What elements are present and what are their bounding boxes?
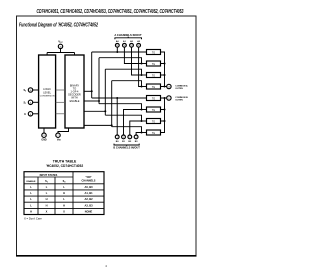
wire S0 bbox=[33, 89, 39, 91]
wire decoder out2 vertical bbox=[98, 58, 100, 104]
page frame bottom edge (darker) bbox=[16, 255, 197, 257]
switch TG7 bbox=[147, 119, 161, 124]
wire row5 channel bbox=[92, 97, 147, 99]
switch TG6 bbox=[147, 107, 161, 112]
svg-text:8: 8 bbox=[43, 135, 44, 137]
wire B0 riser bbox=[116, 98, 118, 135]
svg-text:H: H bbox=[63, 191, 65, 195]
svg-text:ENABLE: ENABLE bbox=[70, 100, 80, 103]
node COMMON B bbox=[167, 96, 171, 100]
wire control TG4 bbox=[112, 81, 142, 87]
wire bus A bbox=[161, 52, 167, 87]
svg-text:H: H bbox=[30, 209, 32, 213]
truth table grid bbox=[24, 172, 104, 215]
node B1 bbox=[122, 135, 126, 139]
wire decoder feed1 bbox=[84, 90, 92, 92]
wire B3 riser bbox=[136, 133, 141, 136]
svg-text:13: 13 bbox=[168, 86, 170, 88]
svg-text:9: 9 bbox=[30, 102, 31, 104]
svg-text:TG: TG bbox=[152, 121, 155, 124]
truth table data text bbox=[30, 185, 93, 214]
wire S1 bbox=[33, 101, 39, 103]
wire decoder out4 vertical bbox=[111, 81, 113, 127]
wire box1 to box2 link2 bbox=[56, 101, 65, 103]
wire A0 drop bbox=[116, 47, 118, 52]
wire row4 channel bbox=[142, 86, 147, 88]
wire E bbox=[33, 113, 39, 115]
svg-text:TRUTH TABLE: TRUTH TABLE bbox=[53, 159, 77, 163]
svg-text:H: H bbox=[46, 203, 48, 207]
wire box1 to box2 link3 bbox=[56, 113, 65, 115]
svg-text:S1: S1 bbox=[23, 101, 26, 104]
wire row3 channel bbox=[142, 74, 147, 76]
svg-text:4: 4 bbox=[136, 137, 137, 139]
switch TG3 bbox=[147, 73, 161, 78]
svg-text:X: X bbox=[46, 209, 48, 213]
wire A3 drop bbox=[139, 47, 142, 86]
wire row7 channel bbox=[142, 120, 147, 122]
svg-text:TG: TG bbox=[152, 75, 155, 78]
node COMMON A bbox=[167, 84, 171, 88]
wire decoder feed3 bbox=[84, 110, 105, 112]
svg-text:5: 5 bbox=[123, 137, 124, 139]
svg-text:OUT/IN: OUT/IN bbox=[175, 88, 183, 90]
node B2 bbox=[128, 135, 132, 139]
wire control TG7 bbox=[105, 115, 141, 121]
svg-text:X: X bbox=[63, 209, 65, 213]
wire box1 to box2 link1 bbox=[56, 89, 65, 91]
switch TG1 bbox=[147, 50, 161, 55]
svg-text:X = Don’t Care: X = Don’t Care bbox=[24, 216, 42, 220]
svg-text:11: 11 bbox=[138, 45, 140, 47]
svg-text:TG: TG bbox=[152, 98, 155, 101]
svg-text:GND: GND bbox=[41, 138, 47, 141]
wire row1 channel bbox=[92, 51, 147, 53]
svg-text:COMMON B: COMMON B bbox=[175, 97, 188, 99]
wire VCC stub bbox=[47, 49, 74, 55]
svg-text:12: 12 bbox=[116, 45, 118, 47]
svg-text:A CHANNELS IN/OUT: A CHANNELS IN/OUT bbox=[114, 33, 142, 37]
svg-text:S1: S1 bbox=[45, 180, 48, 183]
wire decoder out3 vertical bbox=[104, 69, 106, 115]
wire decoder out1 vertical bbox=[91, 52, 93, 98]
svg-text:NONE: NONE bbox=[85, 209, 93, 213]
wire B1 riser bbox=[124, 110, 142, 136]
svg-text:H: H bbox=[46, 197, 48, 201]
svg-text:COMMON A: COMMON A bbox=[175, 84, 188, 87]
wire A2 drop bbox=[132, 47, 142, 75]
wire B2 riser bbox=[130, 121, 142, 135]
svg-text:3: 3 bbox=[168, 98, 169, 100]
wire control TG3 bbox=[105, 69, 141, 75]
op-amp U1 logic level conversion box bbox=[39, 55, 56, 128]
wire A1 drop bbox=[124, 47, 141, 63]
svg-text:1: 1 bbox=[117, 137, 118, 139]
svg-text:INPUT STATES: INPUT STATES bbox=[40, 174, 58, 177]
svg-text:TG: TG bbox=[152, 52, 155, 55]
node B3 bbox=[134, 135, 138, 139]
svg-text:TG: TG bbox=[152, 86, 155, 89]
switch TG2 bbox=[147, 61, 161, 66]
svg-text:S0: S0 bbox=[23, 89, 26, 92]
switch TG4 bbox=[147, 84, 161, 89]
wire bus B bbox=[161, 98, 167, 133]
svg-text:A0, B0: A0, B0 bbox=[84, 185, 93, 189]
node VEE terminal bbox=[58, 128, 69, 133]
svg-text:CHANNELS: CHANNELS bbox=[82, 179, 96, 182]
svg-text:TG: TG bbox=[152, 63, 155, 66]
switch TG5 bbox=[147, 96, 161, 101]
wire row2 channel bbox=[142, 63, 147, 65]
svg-text:LEVEL: LEVEL bbox=[43, 91, 51, 94]
svg-text:TG: TG bbox=[152, 132, 155, 135]
svg-text:CONVERSION: CONVERSION bbox=[40, 95, 55, 97]
svg-text:H: H bbox=[63, 203, 65, 207]
truth table header text bbox=[27, 174, 96, 184]
wire B bracket bbox=[114, 144, 139, 146]
wire A bracket bbox=[115, 37, 142, 40]
page frame bbox=[17, 16, 197, 256]
svg-text:2: 2 bbox=[129, 137, 130, 139]
op-amp U2 binary decoder box bbox=[65, 55, 84, 128]
svg-text:“ON”: “ON” bbox=[85, 176, 92, 179]
svg-text:’HC4052, CD74HCT4052: ’HC4052, CD74HCT4052 bbox=[46, 164, 84, 168]
svg-text:15: 15 bbox=[131, 45, 133, 47]
svg-text:S0: S0 bbox=[63, 180, 66, 183]
svg-text:16: 16 bbox=[59, 46, 61, 48]
svg-text:Functional Diagram of ’HC4052,: Functional Diagram of ’HC4052, CD74HCT40… bbox=[19, 23, 98, 29]
wire row6 channel bbox=[142, 109, 147, 111]
wire control TG6 bbox=[99, 104, 142, 110]
svg-text:OUT/IN: OUT/IN bbox=[175, 100, 183, 102]
ground GND terminal bbox=[43, 128, 45, 133]
wire control TG2 bbox=[99, 58, 142, 64]
VCC terminal bbox=[58, 44, 62, 48]
wire decoder feed4 bbox=[84, 124, 112, 126]
wire row8 channel bbox=[142, 132, 147, 134]
svg-text:14: 14 bbox=[123, 45, 125, 47]
node B0 bbox=[115, 135, 119, 139]
svg-text:CD74HC4051, CD74HC4052, CD74HC: CD74HC4051, CD74HC4052, CD74HC4053, CD74… bbox=[37, 9, 184, 15]
switch TG8 bbox=[147, 130, 161, 135]
svg-text:B CHANNELS IN/OUT: B CHANNELS IN/OUT bbox=[113, 146, 140, 150]
wire decoder feed2 bbox=[84, 100, 99, 102]
svg-text:7: 7 bbox=[57, 135, 58, 137]
svg-text:6: 6 bbox=[30, 114, 31, 116]
svg-text:TG: TG bbox=[152, 109, 155, 112]
svg-text:A3, B3: A3, B3 bbox=[84, 203, 93, 207]
wire control TG8 bbox=[112, 127, 142, 133]
svg-text:10: 10 bbox=[29, 90, 31, 92]
svg-text:A2, B2: A2, B2 bbox=[84, 197, 93, 201]
svg-text:A1, B1: A1, B1 bbox=[84, 191, 93, 195]
svg-text:ENABLE: ENABLE bbox=[27, 180, 37, 183]
